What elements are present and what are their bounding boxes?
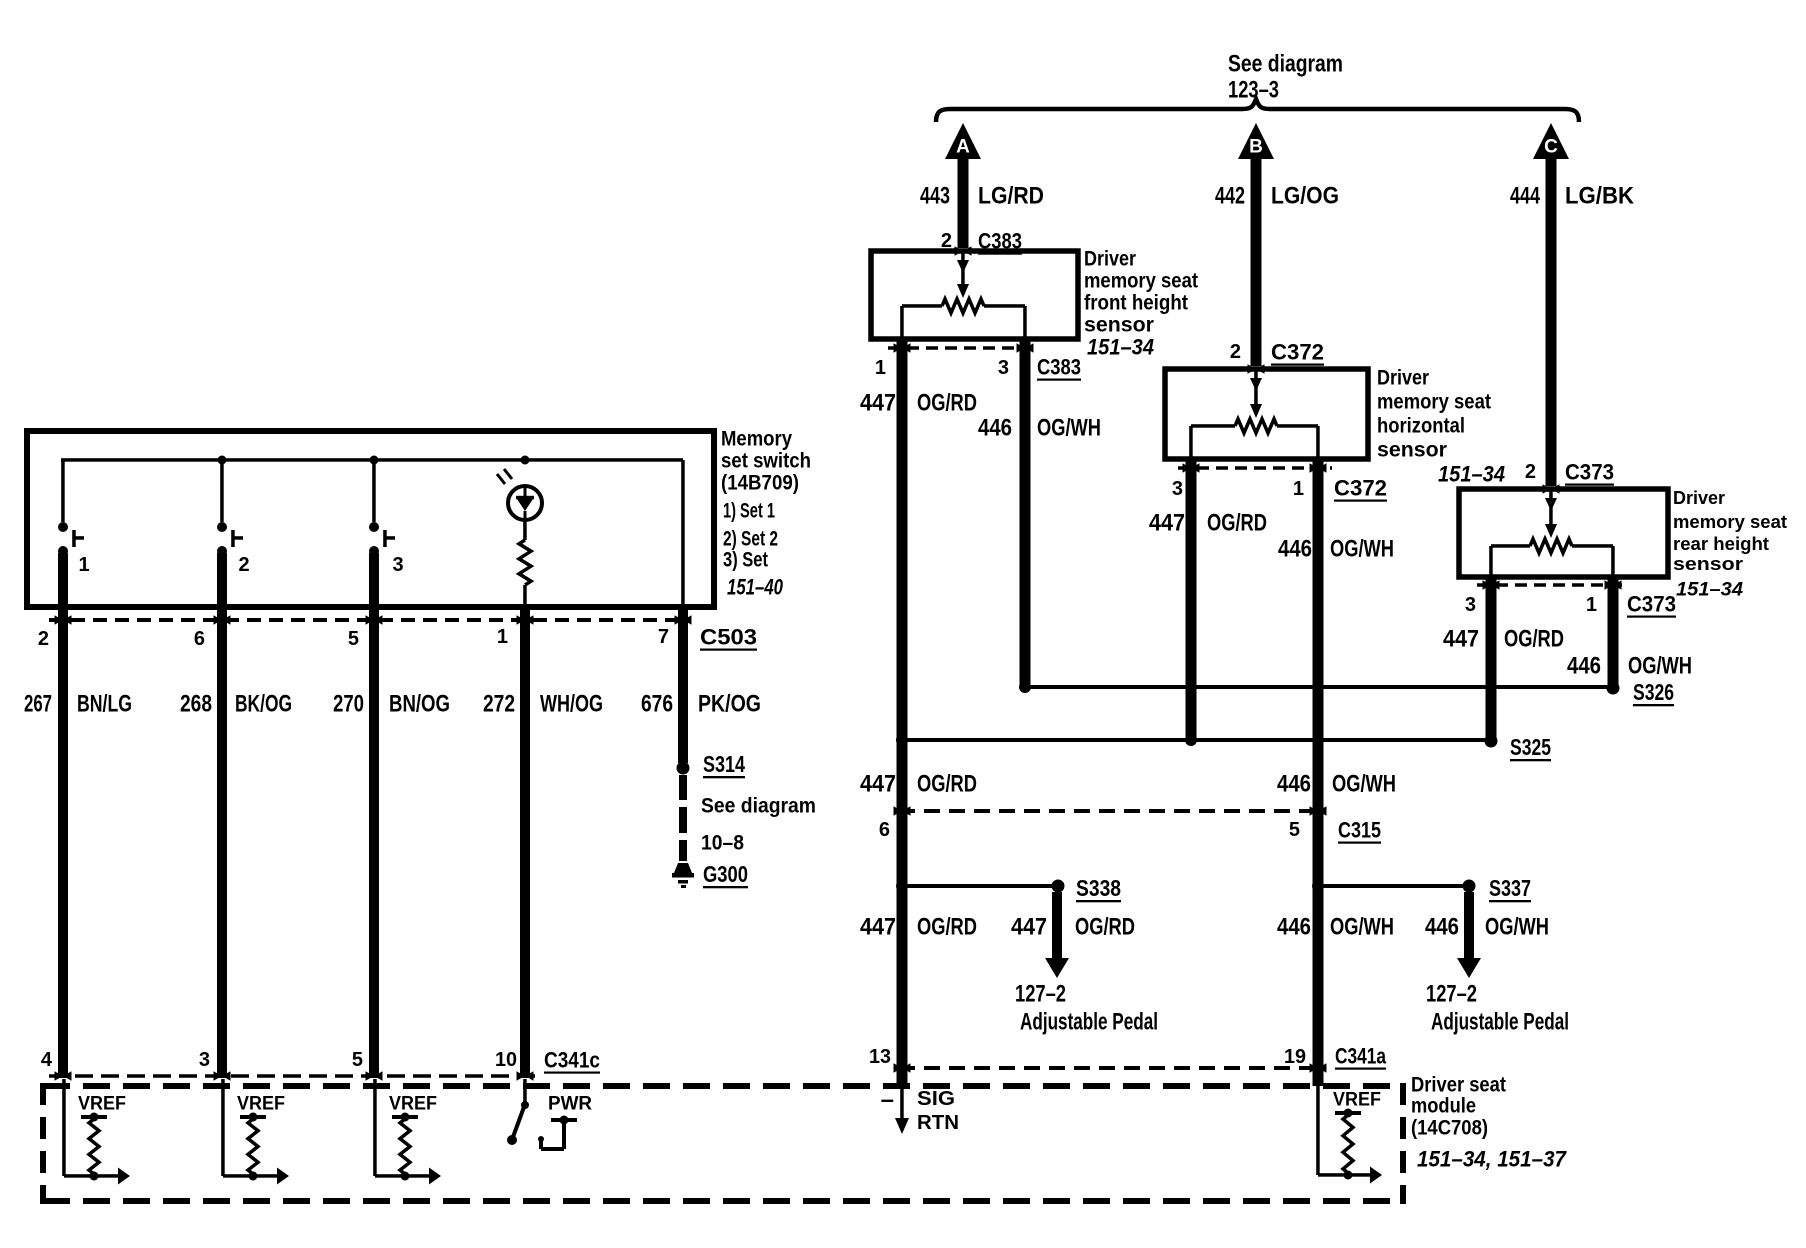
label 442 LG/OG <box>1215 183 1339 210</box>
wire SW2 to pin 6 <box>217 553 227 1078</box>
svg-text:Adjustable Pedal: Adjustable Pedal <box>1431 1009 1569 1036</box>
svg-text:OG/WH: OG/WH <box>1332 771 1396 798</box>
svg-text:268: 268 <box>180 691 212 718</box>
ground G300 symbol <box>672 863 694 888</box>
svg-text:OG/RD: OG/RD <box>1075 914 1135 941</box>
VREF resistor network pin 5 <box>373 1079 441 1185</box>
svg-text:S337: S337 <box>1489 875 1531 901</box>
svg-text:PK/OG: PK/OG <box>698 691 761 718</box>
svg-text:VREF: VREF <box>78 1094 126 1115</box>
svg-text:2: 2 <box>38 628 49 650</box>
junction at 902/S338 <box>896 880 908 892</box>
svg-text:LG/OG: LG/OG <box>1271 183 1339 210</box>
svg-text:C373: C373 <box>1627 592 1676 617</box>
svg-text:OG/WH: OG/WH <box>1485 914 1549 941</box>
svg-text:See diagram: See diagram <box>701 795 816 818</box>
svg-text:127–2: 127–2 <box>1015 981 1066 1008</box>
svg-text:5: 5 <box>352 1049 363 1071</box>
svg-text:447: 447 <box>860 914 896 941</box>
svg-text:set switch: set switch <box>721 450 811 473</box>
svg-text:rear height: rear height <box>1673 534 1769 554</box>
label pins 4 3 5 10 C341c <box>41 1048 600 1073</box>
svg-text:C383: C383 <box>1037 355 1081 380</box>
svg-text:(14B709): (14B709) <box>721 472 799 495</box>
junction at switch 2 bus <box>218 456 227 465</box>
svg-text:2) Set 2: 2) Set 2 <box>723 528 778 551</box>
potentiometer R2 (horizontal sensor) <box>1189 369 1320 459</box>
svg-text:OG/RD: OG/RD <box>917 771 977 798</box>
svg-text:4: 4 <box>41 1049 53 1071</box>
label Memory set switch (14B709) 1)Set1 2)Set2 3)Set 151-40 <box>721 428 811 600</box>
svg-text:LG/RD: LG/RD <box>978 183 1044 210</box>
svg-text:C372: C372 <box>1334 476 1387 501</box>
label 443 LG/RD <box>920 183 1044 210</box>
svg-text:442: 442 <box>1215 183 1245 210</box>
note: See diagram 123-3 <box>1228 51 1343 104</box>
sensor box U2 outline (horizontal) <box>1165 369 1368 459</box>
label pins 6 5 C315 <box>879 818 1381 843</box>
svg-text:BN/OG: BN/OG <box>389 691 450 718</box>
arrow wire 446 OG/WH to adjustable pedal <box>1457 892 1481 978</box>
svg-text:PWR: PWR <box>548 1094 592 1115</box>
splice S338 <box>1052 880 1065 893</box>
svg-text:OG/RD: OG/RD <box>1504 626 1564 653</box>
svg-text:BN/LG: BN/LG <box>77 691 132 718</box>
memory set switch box outline <box>27 431 714 607</box>
connector C341a pin 13 junction <box>894 1063 911 1073</box>
wire 446 OG/WH from sensor U3 pin 1 <box>1608 579 1619 688</box>
svg-text:C341a: C341a <box>1335 1044 1387 1069</box>
svg-text:2: 2 <box>1230 341 1241 363</box>
svg-text:sensor: sensor <box>1673 554 1743 574</box>
label pins 13 19 C341a <box>869 1044 1387 1069</box>
driver seat module dashed box <box>43 1083 1403 1204</box>
svg-text:151–34: 151–34 <box>1087 335 1154 360</box>
splice S325 <box>1485 735 1498 748</box>
sensor box U3 outline (rear height) <box>1459 489 1668 577</box>
svg-text:3: 3 <box>1465 594 1476 616</box>
svg-text:OG/WH: OG/WH <box>1330 914 1394 941</box>
wire to splice S337 <box>1318 884 1469 888</box>
VREF resistor network pin 19 <box>1316 1079 1382 1184</box>
svg-text:BK/OG: BK/OG <box>235 691 292 718</box>
bus right drop to pin 7 <box>681 460 685 605</box>
connector C372 dashed line (bottom) <box>1178 466 1332 470</box>
label 447 OG/RD (below U2) <box>1149 510 1267 537</box>
svg-text:C315: C315 <box>1338 818 1381 843</box>
connector C341c pin 10 junction <box>517 1071 534 1081</box>
note 127-2 Adjustable Pedal (right) <box>1426 981 1569 1036</box>
resistor R4 (LED dropping) <box>519 540 531 585</box>
off-page arrow B <box>1238 123 1274 159</box>
svg-text:C: C <box>1544 137 1558 158</box>
junction at 1025/S326 <box>1019 681 1031 693</box>
svg-text:5: 5 <box>348 628 359 650</box>
svg-text:3: 3 <box>392 554 403 576</box>
svg-text:C372: C372 <box>1271 340 1324 365</box>
connector C373 pin 3 junction <box>1483 580 1500 590</box>
connector C315 pin 6 junction <box>894 806 911 816</box>
wire 442 LG/OG (circuit B) <box>1251 157 1262 366</box>
svg-text:module: module <box>1411 1095 1476 1118</box>
wire 444 LG/BK (circuit C) <box>1546 157 1557 486</box>
svg-text:memory seat: memory seat <box>1673 512 1787 532</box>
svg-text:446: 446 <box>1277 771 1311 798</box>
svg-text:(14C708): (14C708) <box>1411 1117 1488 1140</box>
svg-text:267: 267 <box>24 691 52 718</box>
switch common bus wire <box>61 458 683 462</box>
switch to PWR (pin 10) <box>507 1079 577 1151</box>
label 270 BN/OG <box>333 691 450 718</box>
resistor wire to pin 1 <box>523 585 527 606</box>
wire SW3 to pin 5 <box>369 553 379 1078</box>
connector C503 pin 7 junction <box>675 615 692 625</box>
svg-text:3: 3 <box>998 357 1009 379</box>
label Driver memory seat horizontal sensor 151-34 <box>1377 367 1505 487</box>
svg-text:OG/RD: OG/RD <box>1207 510 1267 537</box>
label Driver memory seat front height sensor 151-34 <box>1084 248 1198 360</box>
label 446 OG/WH (below U1) <box>978 415 1101 442</box>
svg-text:C341c: C341c <box>544 1048 600 1073</box>
junction at switch 3 bus <box>370 456 379 465</box>
svg-text:OG/RD: OG/RD <box>917 914 977 941</box>
connector C383 pin 2 junction <box>955 246 972 256</box>
off-page arrow A <box>945 123 981 159</box>
svg-text:Driver seat: Driver seat <box>1411 1074 1506 1097</box>
wire splice S326 bus <box>1025 685 1613 689</box>
svg-text:1: 1 <box>875 357 886 379</box>
svg-text:447: 447 <box>1011 914 1047 941</box>
svg-text:447: 447 <box>1443 626 1479 653</box>
svg-text:446: 446 <box>1278 536 1312 563</box>
LED indicator lamp <box>497 469 542 520</box>
junction at 1191/S325 <box>1185 734 1197 746</box>
label 447 OG/RD (below U3) <box>1443 626 1564 653</box>
svg-text:S314: S314 <box>703 751 745 777</box>
label 267 BN/LG <box>24 691 132 718</box>
svg-text:151–40: 151–40 <box>727 575 784 600</box>
connector C372 pin 2 junction <box>1248 364 1265 374</box>
svg-text:WH/OG: WH/OG <box>540 691 603 718</box>
note See diagram 10-8 <box>701 795 816 855</box>
svg-text:446: 446 <box>1567 653 1601 680</box>
label pins 2 6 5 1 7 C503 <box>38 625 757 651</box>
label 446 OG/WH (below U3) <box>1567 653 1692 680</box>
svg-text:7: 7 <box>658 626 669 648</box>
svg-text:A: A <box>956 137 970 158</box>
switch SW1 (Set 1) <box>58 522 84 556</box>
svg-text:OG/WH: OG/WH <box>1628 653 1692 680</box>
off-page arrow C <box>1533 123 1569 159</box>
connector C503 pin 2 junction <box>55 615 72 625</box>
svg-text:13: 13 <box>869 1046 891 1068</box>
potentiometer R3 (rear height sensor) <box>1489 489 1615 577</box>
connector C372 pin 3 junction <box>1183 463 1200 473</box>
svg-text:See diagram: See diagram <box>1228 51 1343 78</box>
svg-text:SIG: SIG <box>917 1088 955 1110</box>
label 447 OG/RD (above C315) <box>860 771 977 798</box>
wire 447 OG/RD from sensor U3 pin 3 <box>1486 579 1497 741</box>
svg-text:sensor: sensor <box>1377 439 1447 462</box>
svg-text:151–34: 151–34 <box>1438 462 1505 487</box>
connector C373 pin 2 junction <box>1543 484 1560 494</box>
svg-text:444: 444 <box>1510 183 1540 210</box>
label pins 1 3 C383 (bottom) <box>875 355 1081 380</box>
svg-text:B: B <box>1249 137 1263 158</box>
svg-text:1) Set 1: 1) Set 1 <box>723 500 775 523</box>
svg-text:Driver: Driver <box>1084 248 1136 271</box>
svg-text:446: 446 <box>978 415 1012 442</box>
junction at 902/S325 <box>896 734 908 746</box>
label pins 3 1 C373 (bottom) <box>1465 592 1676 617</box>
wire 447 OG/RD from sensor U2 pin 3 <box>1186 461 1197 739</box>
sensor box U1 outline (front height) <box>871 251 1078 339</box>
label 272 WH/OG <box>483 691 603 718</box>
svg-text:S338: S338 <box>1076 875 1121 901</box>
connector C503 pin 5 junction <box>366 615 383 625</box>
svg-text:C373: C373 <box>1565 460 1614 485</box>
svg-text:–: – <box>881 1087 894 1114</box>
svg-text:VREF: VREF <box>1333 1090 1381 1111</box>
label 447 OG/RD (below U1) <box>860 390 977 417</box>
label 446 OG/WH (pedal branch) <box>1425 914 1549 941</box>
label - SIG RTN (pin 13) <box>881 1087 959 1135</box>
bus drop to switch 3 <box>372 460 376 522</box>
svg-text:1: 1 <box>1293 478 1304 500</box>
svg-text:Memory: Memory <box>721 428 792 451</box>
label pin 2 connector C383 (top) <box>941 229 1022 254</box>
connector C383 dashed line (bottom) <box>888 346 1040 350</box>
svg-text:sensor: sensor <box>1084 314 1154 337</box>
label pin 2 connector C372 (top) <box>1230 340 1324 365</box>
junction at LED bus <box>521 456 530 465</box>
svg-text:6: 6 <box>194 628 205 650</box>
svg-text:C503: C503 <box>700 625 757 650</box>
svg-text:10–8: 10–8 <box>701 832 744 855</box>
svg-text:446: 446 <box>1425 914 1459 941</box>
svg-text:3: 3 <box>1172 478 1183 500</box>
connector C315 pin 5 junction <box>1310 806 1327 816</box>
label pin 2 connector C373 (top) <box>1525 460 1614 485</box>
wire 443 LG/RD (circuit A) <box>958 157 969 248</box>
connector C503 pin 1 junction <box>517 615 534 625</box>
label 268 BK/OG <box>180 691 292 718</box>
svg-text:127–2: 127–2 <box>1426 981 1477 1008</box>
connector C341c pin 5 junction <box>366 1071 383 1081</box>
label 446 OG/WH (above C341a) <box>1277 914 1394 941</box>
connector C315 dashed line <box>899 809 1321 813</box>
connector C503 pin 6 junction <box>214 615 231 625</box>
connector C383 pin 3 junction <box>1017 343 1034 353</box>
wire 446 OG/WH from sensor U2 pin 1 <box>1313 461 1324 1086</box>
splice S314 <box>677 762 690 775</box>
splice S326 <box>1607 682 1620 695</box>
junction at 1318/S337 <box>1312 880 1324 892</box>
wire LED to pin 10 <box>520 608 530 1078</box>
svg-text:1: 1 <box>78 554 89 576</box>
label 446 OG/WH (above C315) <box>1277 771 1396 798</box>
label 444 LG/BK <box>1510 183 1635 210</box>
svg-text:446: 446 <box>1277 914 1311 941</box>
arrow wire 447 OG/RD to adjustable pedal <box>1045 892 1069 978</box>
switch SW3 (Set) <box>369 522 395 556</box>
svg-text:G300: G300 <box>703 861 748 887</box>
label 447 OG/RD (pedal branch) <box>1011 914 1135 941</box>
svg-text:OG/RD: OG/RD <box>917 390 977 417</box>
bus drop to switch 1 <box>61 460 64 522</box>
connector C341c pin 4 junction <box>55 1071 72 1081</box>
wire 447 OG/RD from sensor U1 pin 1 <box>897 341 908 1086</box>
dashed wire S314 to G300 <box>679 775 687 861</box>
label 676 PK/OG <box>641 691 761 718</box>
label pins 3 1 C372 (bottom) <box>1172 476 1387 501</box>
svg-text:S325: S325 <box>1510 734 1551 760</box>
potentiometer R1 (front height sensor) <box>900 251 1026 338</box>
junction at 1318/S326 <box>1312 681 1324 693</box>
svg-text:horizontal: horizontal <box>1377 415 1465 438</box>
svg-text:676: 676 <box>641 691 673 718</box>
svg-text:6: 6 <box>879 819 890 841</box>
svg-text:3: 3 <box>199 1049 210 1071</box>
svg-text:OG/WH: OG/WH <box>1037 415 1101 442</box>
LED wire to resistor <box>523 520 527 540</box>
connector C503 dashed line <box>49 618 690 622</box>
svg-text:272: 272 <box>483 691 515 718</box>
splice S337 <box>1463 880 1476 893</box>
svg-text:151–34: 151–34 <box>1676 580 1743 601</box>
connector C341a dashed line <box>899 1066 1321 1070</box>
svg-text:447: 447 <box>1149 510 1185 537</box>
connector C383 pin 1 junction <box>894 343 911 353</box>
VREF resistor network pin 4 <box>62 1079 130 1185</box>
svg-text:LG/BK: LG/BK <box>1565 183 1635 210</box>
svg-text:2: 2 <box>238 554 249 576</box>
brace to diagram 123-3 <box>936 99 1579 122</box>
connector C341c pin 3 junction <box>214 1071 231 1081</box>
svg-text:Driver: Driver <box>1377 367 1429 390</box>
connector C373 pin 1 junction <box>1605 580 1622 590</box>
svg-text:3) Set: 3) Set <box>723 549 768 572</box>
label 446 OG/WH (below U2) <box>1278 536 1394 563</box>
svg-text:VREF: VREF <box>389 1094 437 1115</box>
note 127-2 Adjustable Pedal (left) <box>1015 981 1158 1036</box>
VREF resistor network pin 3 <box>221 1079 289 1185</box>
svg-text:10: 10 <box>495 1049 517 1071</box>
svg-text:447: 447 <box>860 390 896 417</box>
svg-text:Adjustable Pedal: Adjustable Pedal <box>1020 1009 1158 1036</box>
svg-text:443: 443 <box>920 183 950 210</box>
connector C341c dashed line <box>49 1074 535 1078</box>
svg-text:front height: front height <box>1084 292 1188 315</box>
svg-text:memory seat: memory seat <box>1084 270 1198 293</box>
svg-text:memory seat: memory seat <box>1377 391 1491 414</box>
svg-text:S326: S326 <box>1633 679 1674 705</box>
wire to splice S338 <box>902 884 1058 888</box>
svg-text:447: 447 <box>860 771 896 798</box>
svg-text:1: 1 <box>1586 594 1597 616</box>
connector C373 dashed line (bottom) <box>1477 583 1627 587</box>
svg-text:19: 19 <box>1284 1046 1306 1068</box>
svg-text:1: 1 <box>497 626 508 648</box>
svg-text:OG/WH: OG/WH <box>1330 536 1394 563</box>
svg-text:RTN: RTN <box>917 1112 959 1134</box>
wire splice S325 bus <box>902 738 1491 742</box>
label Driver memory seat rear height sensor 151-34 <box>1673 488 1787 601</box>
svg-text:270: 270 <box>333 691 364 718</box>
svg-text:VREF: VREF <box>237 1094 285 1115</box>
wire pin 7 to S314 <box>678 608 688 763</box>
wire 446 OG/WH from sensor U1 pin 3 <box>1020 341 1031 687</box>
svg-text:151–34, 151–37: 151–34, 151–37 <box>1417 1147 1568 1172</box>
wire SW1 to pin 2 <box>58 553 68 1078</box>
svg-text:Driver: Driver <box>1673 488 1725 508</box>
label 447 OG/RD (above C341a) <box>860 914 977 941</box>
connector C372 pin 1 junction <box>1310 463 1327 473</box>
svg-text:5: 5 <box>1289 819 1300 841</box>
switch SW2 (Set 2) <box>217 522 243 556</box>
label Driver seat module (14C708) 151-34 151-37 <box>1411 1074 1568 1172</box>
connector C341a pin 19 junction <box>1310 1063 1327 1073</box>
svg-text:2: 2 <box>1525 461 1536 483</box>
bus drop to switch 2 <box>220 460 224 522</box>
SIG RTN wire arrow (pin 13) <box>895 1079 909 1134</box>
